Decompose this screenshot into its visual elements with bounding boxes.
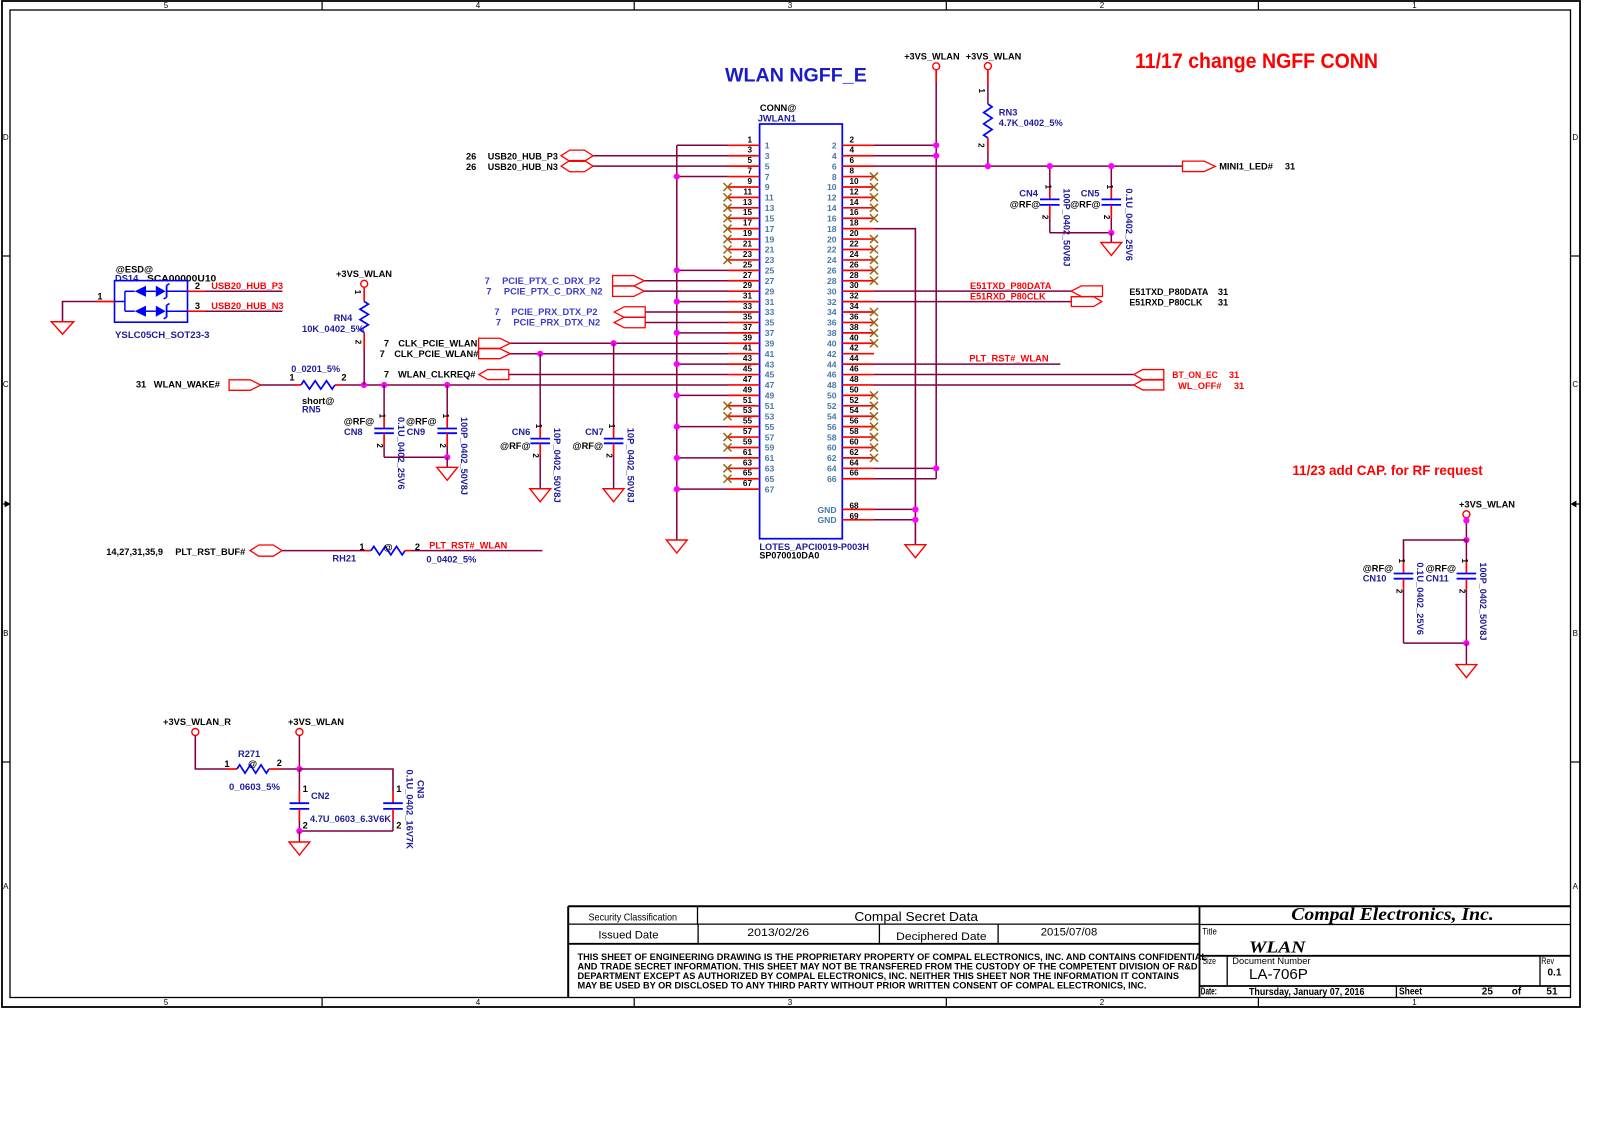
svg-text:2: 2 (415, 542, 420, 552)
svg-text:49: 49 (743, 385, 753, 394)
svg-text:54: 54 (850, 406, 860, 415)
svg-text:2: 2 (438, 443, 447, 448)
svg-text:WLAN: WLAN (1249, 937, 1306, 956)
svg-text:8: 8 (850, 167, 855, 176)
svg-text:65: 65 (743, 469, 753, 478)
svg-text:59: 59 (765, 443, 775, 453)
svg-text:15: 15 (743, 208, 753, 217)
svg-text:42: 42 (827, 349, 837, 359)
svg-text:22: 22 (827, 245, 837, 255)
svg-text:51: 51 (1546, 987, 1558, 998)
svg-text:41: 41 (765, 349, 775, 359)
svg-text:2015/07/08: 2015/07/08 (1041, 927, 1098, 939)
svg-text:Thursday, January 07, 2016: Thursday, January 07, 2016 (1249, 987, 1365, 998)
svg-text:63: 63 (765, 464, 775, 474)
svg-text:63: 63 (743, 458, 753, 467)
svg-text:15: 15 (765, 213, 775, 223)
svg-text:51: 51 (743, 396, 753, 405)
svg-text:+3VS_WLAN: +3VS_WLAN (336, 269, 392, 279)
svg-text:3: 3 (788, 998, 793, 1007)
svg-text:6: 6 (850, 156, 855, 165)
svg-text:43: 43 (765, 359, 775, 369)
svg-text:10: 10 (827, 182, 837, 192)
svg-text:55: 55 (743, 417, 753, 426)
svg-text:Date:: Date: (1201, 987, 1217, 998)
svg-text:66: 66 (827, 474, 837, 484)
svg-text:R271: R271 (238, 749, 260, 759)
svg-text:5: 5 (747, 156, 752, 165)
svg-text:62: 62 (850, 448, 860, 457)
svg-text:3: 3 (195, 301, 200, 311)
svg-text:2: 2 (1394, 589, 1403, 594)
svg-text:RN4: RN4 (334, 313, 353, 323)
svg-text:60: 60 (827, 443, 837, 453)
svg-text:1: 1 (747, 135, 752, 144)
svg-text:49: 49 (765, 391, 775, 401)
svg-text:51: 51 (765, 401, 775, 411)
svg-text:YSLC05CH_SOT23-3: YSLC05CH_SOT23-3 (115, 330, 210, 340)
svg-text:THIS SHEET OF ENGINEERING DRAW: THIS SHEET OF ENGINEERING DRAWING IS THE… (578, 952, 1208, 962)
svg-text:58: 58 (850, 427, 860, 436)
svg-text:CN8: CN8 (344, 427, 363, 437)
svg-text:B: B (3, 629, 8, 638)
svg-text:52: 52 (850, 396, 860, 405)
svg-text:2: 2 (1102, 215, 1111, 220)
svg-text:Document Number: Document Number (1232, 956, 1310, 967)
svg-text:2: 2 (195, 281, 200, 291)
svg-text:20: 20 (827, 234, 837, 244)
svg-text:30: 30 (827, 286, 837, 296)
svg-text:2: 2 (605, 453, 614, 458)
svg-text:CN5: CN5 (1081, 189, 1100, 199)
svg-text:20: 20 (850, 229, 860, 238)
svg-text:33: 33 (765, 307, 775, 317)
svg-text:31: 31 (765, 297, 775, 307)
svg-text:10P_0402_50V8J: 10P_0402_50V8J (625, 428, 635, 503)
svg-text:31: 31 (1229, 370, 1239, 380)
svg-text:7: 7 (496, 318, 501, 328)
svg-text:9: 9 (765, 182, 770, 192)
svg-text:USB20_HUB_N3: USB20_HUB_N3 (211, 301, 283, 311)
svg-text:53: 53 (743, 406, 753, 415)
svg-text:1: 1 (607, 424, 616, 429)
svg-text:@RF@: @RF@ (500, 441, 531, 451)
svg-text:67: 67 (743, 479, 753, 488)
svg-text:2: 2 (1100, 998, 1105, 1007)
svg-text:40: 40 (850, 333, 860, 342)
svg-text:B: B (1573, 629, 1578, 638)
svg-text:Issued Date: Issued Date (598, 929, 658, 941)
svg-text:7: 7 (380, 349, 385, 359)
svg-text:21: 21 (765, 245, 775, 255)
svg-text:29: 29 (765, 286, 775, 296)
svg-text:61: 61 (743, 448, 753, 457)
svg-text:1: 1 (396, 784, 401, 794)
svg-text:13: 13 (765, 203, 775, 213)
svg-text:56: 56 (827, 422, 837, 432)
svg-text:E51TXD_P80DATA: E51TXD_P80DATA (1129, 287, 1208, 297)
svg-text:SP070010DA0: SP070010DA0 (759, 551, 819, 561)
svg-text:GND: GND (817, 515, 836, 525)
svg-text:GND: GND (817, 505, 836, 515)
svg-text:48: 48 (827, 380, 837, 390)
svg-text:26: 26 (466, 152, 476, 162)
svg-text:11/17 change NGFF CONN: 11/17 change NGFF CONN (1135, 50, 1378, 73)
svg-text:10P_0402_50V8J: 10P_0402_50V8J (552, 428, 562, 503)
svg-text:100P_0402_50V8J: 100P_0402_50V8J (1478, 562, 1488, 640)
svg-text:Security Classification: Security Classification (589, 912, 678, 923)
svg-text:7: 7 (384, 338, 389, 348)
svg-text:8: 8 (832, 172, 837, 182)
svg-text:2: 2 (396, 820, 401, 830)
svg-text:3: 3 (788, 1, 793, 10)
svg-text:5: 5 (164, 998, 169, 1007)
svg-text:22: 22 (850, 240, 860, 249)
svg-text:1: 1 (1105, 185, 1114, 190)
svg-text:38: 38 (827, 328, 837, 338)
svg-text:E51RXD_P80CLK: E51RXD_P80CLK (970, 291, 1046, 301)
svg-text:@: @ (383, 542, 392, 552)
svg-text:2: 2 (353, 340, 362, 345)
svg-text:11/23 add CAP. for RF request: 11/23 add CAP. for RF request (1292, 463, 1483, 478)
svg-text:62: 62 (827, 453, 837, 463)
svg-text:CN6: CN6 (512, 427, 531, 437)
svg-text:46: 46 (827, 370, 837, 380)
svg-text:52: 52 (827, 401, 837, 411)
svg-text:28: 28 (827, 276, 837, 286)
svg-text:2: 2 (977, 143, 986, 148)
svg-text:26: 26 (850, 260, 860, 269)
svg-text:14: 14 (850, 198, 860, 207)
svg-text:@: @ (248, 759, 257, 769)
svg-text:@RF@: @RF@ (406, 416, 437, 426)
svg-text:67: 67 (765, 484, 775, 494)
svg-text:64: 64 (827, 464, 837, 474)
svg-text:12: 12 (827, 193, 837, 203)
svg-text:10: 10 (850, 177, 860, 186)
svg-text:31: 31 (743, 292, 753, 301)
svg-text:1: 1 (359, 542, 364, 552)
svg-text:3: 3 (765, 151, 770, 161)
svg-text:27: 27 (765, 276, 775, 286)
svg-text:0.1U_0402_25V6: 0.1U_0402_25V6 (396, 417, 406, 490)
svg-text:24: 24 (850, 250, 860, 259)
svg-text:34: 34 (827, 307, 837, 317)
svg-text:17: 17 (765, 224, 775, 234)
svg-text:2: 2 (531, 453, 540, 458)
svg-text:+3VS_WLAN: +3VS_WLAN (288, 717, 344, 727)
svg-text:13: 13 (743, 198, 753, 207)
svg-text:2013/02/26: 2013/02/26 (747, 927, 809, 939)
svg-text:1: 1 (353, 290, 362, 295)
svg-text:18: 18 (850, 219, 860, 228)
svg-text:WLAN_WAKE#: WLAN_WAKE# (154, 379, 221, 389)
svg-text:4.7K_0402_5%: 4.7K_0402_5% (999, 118, 1064, 128)
svg-text:E51RXD_P80CLK: E51RXD_P80CLK (1129, 297, 1202, 307)
svg-text:12: 12 (850, 187, 860, 196)
svg-text:50: 50 (827, 391, 837, 401)
svg-text:PCIE_PTX_C_DRX_N2: PCIE_PTX_C_DRX_N2 (504, 286, 603, 296)
svg-text:RN3: RN3 (999, 108, 1018, 118)
svg-text:7: 7 (486, 286, 491, 296)
svg-text:38: 38 (850, 323, 860, 332)
svg-text:@RF@: @RF@ (344, 416, 375, 426)
svg-text:2: 2 (850, 135, 855, 144)
svg-text:61: 61 (765, 453, 775, 463)
svg-text:46: 46 (850, 365, 860, 374)
svg-text:0.1U_0402_25V6: 0.1U_0402_25V6 (1124, 188, 1134, 261)
svg-text:RH21: RH21 (332, 554, 356, 564)
svg-text:1: 1 (1043, 185, 1052, 190)
svg-text:LA-706P: LA-706P (1249, 967, 1308, 983)
svg-text:11: 11 (765, 193, 774, 203)
svg-text:+3VS_WLAN: +3VS_WLAN (904, 52, 960, 62)
svg-text:32: 32 (850, 292, 860, 301)
svg-text:0.1: 0.1 (1548, 968, 1562, 979)
svg-text:4: 4 (832, 151, 837, 161)
svg-text:MINI1_LED#: MINI1_LED# (1219, 162, 1274, 172)
svg-text:CN3: CN3 (416, 780, 426, 799)
svg-text:19: 19 (743, 229, 753, 238)
svg-text:7: 7 (384, 370, 389, 380)
svg-text:Size: Size (1203, 956, 1216, 967)
svg-text:4: 4 (476, 1, 481, 10)
svg-text:50: 50 (850, 385, 860, 394)
svg-text:100P_0402_50V8J: 100P_0402_50V8J (459, 417, 469, 495)
svg-text:0_0201_5%: 0_0201_5% (291, 364, 341, 374)
svg-text:35: 35 (743, 312, 753, 321)
svg-text:5: 5 (164, 1, 169, 10)
svg-text:PCIE_PRX_DTX_P2: PCIE_PRX_DTX_P2 (511, 307, 597, 317)
svg-text:JWLAN1: JWLAN1 (758, 114, 796, 124)
svg-text:1: 1 (977, 89, 986, 94)
svg-text:43: 43 (743, 354, 753, 363)
svg-text:59: 59 (743, 437, 753, 446)
svg-text:26: 26 (466, 162, 476, 172)
svg-text:11: 11 (743, 187, 752, 196)
svg-text:PLT_RST_BUF#: PLT_RST_BUF# (175, 547, 246, 557)
svg-text:17: 17 (743, 219, 753, 228)
svg-text:7: 7 (485, 276, 490, 286)
svg-text:PCIE_PRX_DTX_N2: PCIE_PRX_DTX_N2 (513, 318, 600, 328)
svg-text:33: 33 (743, 302, 753, 311)
svg-text:1: 1 (378, 414, 387, 419)
svg-text:@RF@: @RF@ (1426, 564, 1457, 574)
svg-text:48: 48 (850, 375, 860, 384)
svg-text:29: 29 (743, 281, 753, 290)
svg-text:Rev: Rev (1541, 956, 1554, 967)
svg-text:SCA00000U10: SCA00000U10 (147, 273, 216, 283)
svg-text:+3VS_WLAN_R: +3VS_WLAN_R (163, 717, 231, 727)
svg-text:53: 53 (765, 411, 775, 421)
svg-text:1: 1 (1412, 998, 1417, 1007)
svg-text:26: 26 (827, 266, 837, 276)
svg-text:@RF@: @RF@ (1070, 200, 1101, 210)
svg-text:44: 44 (827, 359, 837, 369)
svg-text:2: 2 (277, 758, 282, 768)
svg-text:7: 7 (494, 307, 499, 317)
svg-text:0_0603_5%: 0_0603_5% (229, 782, 281, 792)
svg-text:Sheet: Sheet (1399, 987, 1423, 998)
svg-text:69: 69 (850, 512, 860, 521)
svg-text:23: 23 (743, 250, 753, 259)
svg-text:31: 31 (1218, 297, 1228, 307)
svg-text:19: 19 (765, 234, 775, 244)
svg-text:37: 37 (743, 323, 753, 332)
svg-text:31: 31 (1234, 381, 1244, 391)
svg-text:16: 16 (827, 213, 837, 223)
svg-text:Deciphered Date: Deciphered Date (896, 931, 987, 943)
svg-text:E51TXD_P80DATA: E51TXD_P80DATA (970, 281, 1052, 291)
svg-text:A: A (1573, 882, 1579, 891)
svg-text:39: 39 (765, 338, 775, 348)
svg-text:7: 7 (747, 167, 752, 176)
svg-text:27: 27 (743, 271, 753, 280)
svg-text:57: 57 (743, 427, 753, 436)
svg-text:CN9: CN9 (407, 427, 426, 437)
svg-text:USB20_HUB_P3: USB20_HUB_P3 (211, 281, 283, 291)
svg-text:36: 36 (827, 318, 837, 328)
svg-text:CLK_PCIE_WLAN#: CLK_PCIE_WLAN# (394, 349, 479, 359)
svg-text:4.7U_0603_6.3V6K: 4.7U_0603_6.3V6K (310, 814, 391, 824)
svg-text:14,27,31,35,9: 14,27,31,35,9 (106, 547, 163, 557)
svg-text:47: 47 (743, 375, 753, 384)
svg-text:23: 23 (765, 255, 775, 265)
svg-text:PLT_RST#_WLAN: PLT_RST#_WLAN (969, 354, 1049, 364)
svg-text:Compal Electronics, Inc.: Compal Electronics, Inc. (1291, 904, 1494, 924)
svg-text:@RF@: @RF@ (1363, 564, 1394, 574)
svg-text:1: 1 (1460, 559, 1469, 564)
svg-text:31: 31 (136, 379, 146, 389)
svg-text:36: 36 (850, 312, 860, 321)
svg-text:of: of (1512, 987, 1522, 998)
svg-text:A: A (3, 882, 9, 891)
svg-text:2: 2 (375, 443, 384, 448)
svg-text:2: 2 (1457, 589, 1466, 594)
svg-text:Title: Title (1202, 927, 1217, 938)
svg-text:30: 30 (850, 281, 860, 290)
svg-text:RN5: RN5 (302, 405, 321, 415)
svg-text:1: 1 (1397, 559, 1406, 564)
svg-text:3: 3 (747, 146, 752, 155)
svg-text:WL_OFF#: WL_OFF# (1178, 381, 1222, 391)
svg-text:45: 45 (743, 365, 753, 374)
svg-text:0.1U_0402_25V6: 0.1U_0402_25V6 (1415, 562, 1425, 635)
svg-text:@RF@: @RF@ (1010, 200, 1041, 210)
svg-text:25: 25 (1482, 987, 1494, 998)
svg-text:2: 2 (341, 373, 346, 383)
svg-text:CN11: CN11 (1426, 574, 1449, 584)
svg-text:54: 54 (827, 411, 837, 421)
svg-text:35: 35 (765, 318, 775, 328)
svg-text:32: 32 (827, 297, 837, 307)
svg-text:7: 7 (765, 172, 770, 182)
svg-text:66: 66 (850, 469, 860, 478)
svg-text:16: 16 (850, 208, 860, 217)
svg-text:CN4: CN4 (1019, 189, 1038, 199)
svg-text:42: 42 (850, 344, 860, 353)
svg-text:21: 21 (743, 240, 753, 249)
svg-text:40: 40 (827, 338, 837, 348)
svg-text:C: C (3, 380, 9, 389)
svg-text:AND TRADE SECRET INFORMATION.: AND TRADE SECRET INFORMATION. THIS SHEET… (578, 961, 1199, 971)
svg-text:C: C (1572, 380, 1578, 389)
svg-text:USB20_HUB_P3: USB20_HUB_P3 (488, 152, 558, 162)
svg-text:1: 1 (224, 759, 229, 769)
svg-text:1: 1 (303, 784, 308, 794)
svg-text:CN7: CN7 (585, 427, 604, 437)
svg-text:PCIE_PTX_C_DRX_P2: PCIE_PTX_C_DRX_P2 (502, 276, 600, 286)
svg-text:60: 60 (850, 437, 860, 446)
svg-text:@RF@: @RF@ (573, 441, 604, 451)
svg-text:28: 28 (850, 271, 860, 280)
svg-text:WLAN NGFF_E: WLAN NGFF_E (725, 64, 867, 86)
svg-text:1: 1 (441, 414, 450, 419)
svg-text:10K_0402_5%: 10K_0402_5% (302, 324, 365, 334)
svg-text:2: 2 (1041, 215, 1050, 220)
svg-text:2: 2 (303, 820, 308, 830)
svg-text:45: 45 (765, 370, 775, 380)
svg-text:USB20_HUB_N3: USB20_HUB_N3 (488, 162, 558, 172)
svg-text:65: 65 (765, 474, 775, 484)
svg-text:31: 31 (1218, 287, 1228, 297)
svg-text:D: D (1572, 133, 1578, 142)
svg-text:1: 1 (289, 373, 294, 383)
svg-text:CN10: CN10 (1363, 574, 1387, 584)
svg-text:CLK_PCIE_WLAN: CLK_PCIE_WLAN (398, 338, 477, 348)
svg-text:44: 44 (850, 354, 860, 363)
svg-text:2: 2 (1100, 1, 1105, 10)
svg-text:25: 25 (765, 266, 775, 276)
svg-text:24: 24 (827, 255, 837, 265)
svg-text:1: 1 (1412, 1, 1417, 10)
svg-text:DEPARTMENT EXCEPT AS AUTHORIZE: DEPARTMENT EXCEPT AS AUTHORIZED BY COMPA… (578, 971, 1180, 981)
svg-text:CONN@: CONN@ (760, 103, 796, 113)
svg-text:41: 41 (743, 344, 753, 353)
svg-text:BT_ON_EC: BT_ON_EC (1172, 370, 1218, 380)
svg-text:18: 18 (827, 224, 837, 234)
svg-text:55: 55 (765, 422, 775, 432)
svg-text:56: 56 (850, 417, 860, 426)
svg-text:14: 14 (827, 203, 837, 213)
svg-text:9: 9 (747, 177, 752, 186)
svg-text:4: 4 (850, 146, 855, 155)
svg-text:1: 1 (765, 141, 770, 151)
svg-text:47: 47 (765, 380, 775, 390)
svg-text:WLAN_CLKREQ#: WLAN_CLKREQ# (398, 370, 476, 380)
svg-text:57: 57 (765, 432, 775, 442)
svg-text:34: 34 (850, 302, 860, 311)
svg-text:1: 1 (97, 291, 102, 301)
svg-text:37: 37 (765, 328, 775, 338)
svg-text:64: 64 (850, 458, 860, 467)
svg-text:Compal Secret Data: Compal Secret Data (854, 910, 978, 924)
svg-text:4: 4 (476, 998, 481, 1007)
svg-text:CN2: CN2 (311, 791, 330, 801)
svg-text:1: 1 (534, 424, 543, 429)
svg-text:6: 6 (832, 161, 837, 171)
svg-text:25: 25 (743, 260, 753, 269)
svg-text:31: 31 (1285, 162, 1295, 172)
svg-text:D: D (3, 133, 9, 142)
svg-text:5: 5 (765, 161, 770, 171)
svg-text:58: 58 (827, 432, 837, 442)
svg-text:+3VS_WLAN: +3VS_WLAN (966, 52, 1022, 62)
svg-text:+3VS_WLAN: +3VS_WLAN (1459, 499, 1515, 509)
svg-text:0.1U_0402_16V7K: 0.1U_0402_16V7K (405, 770, 415, 850)
svg-text:0_0402_5%: 0_0402_5% (426, 555, 477, 565)
svg-text:PLT_RST#_WLAN: PLT_RST#_WLAN (429, 541, 507, 551)
